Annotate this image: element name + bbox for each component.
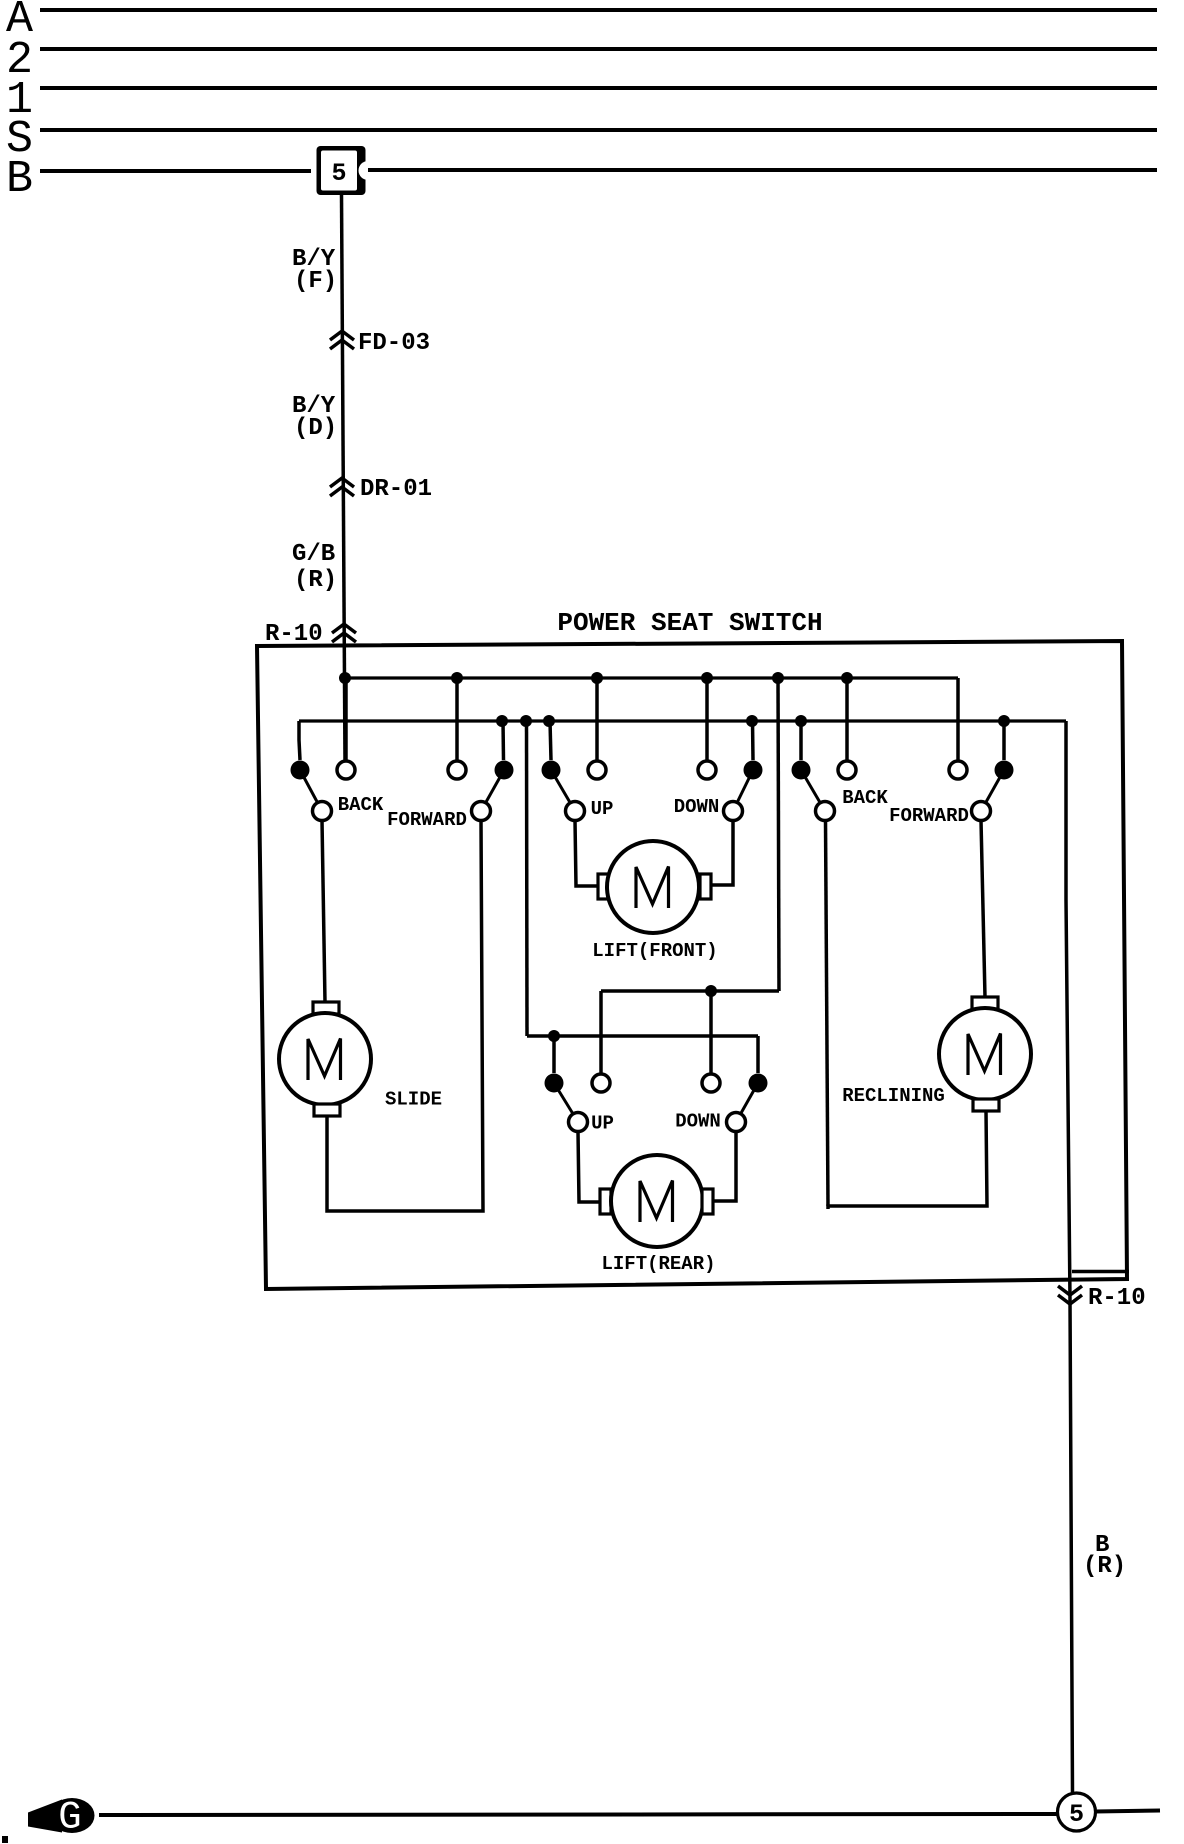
wire supply bus to slide back NO contact: [344, 678, 348, 761]
wire liftfront down pivot to motor right: [711, 821, 733, 886]
junction ground bus x1004: [998, 715, 1010, 727]
switch contact liftrear-up common (filled): [545, 1074, 564, 1093]
wire from connector 5 down to power seat switch (node feed): [342, 195, 346, 761]
switch contact slide-back NO (open): [337, 761, 355, 779]
wire ground bus right end down to ground (node B(R)): [1066, 721, 1073, 1793]
motor LIFT REAR left terminal tab: [600, 1189, 611, 1214]
svg-text:(R): (R): [1083, 1553, 1126, 1580]
switch lever reclining FORWARD: [981, 770, 1004, 811]
wire ground bus to reclining back contact: [799, 721, 803, 760]
switch lever reclining BACK: [801, 770, 825, 811]
switch contact slide-forward NO (open): [448, 761, 466, 779]
connector 5 (in-line connector on rail B): [317, 146, 366, 195]
junction lift-rear ground rail: [548, 1030, 560, 1042]
wire reclining forward pivot to motor top: [981, 821, 985, 998]
junction supply bus x457: [451, 672, 463, 684]
wire liftfront up pivot to motor left: [575, 821, 598, 887]
wire ground bus to lift-front down contact: [751, 721, 755, 760]
switch contact slide-forward common (filled): [495, 761, 514, 780]
svg-text:DOWN: DOWN: [674, 796, 720, 818]
svg-text:R-10: R-10: [1088, 1285, 1146, 1312]
wire supply bus to reclining back NO contact: [845, 678, 849, 761]
wire supply bus to lift-front down NO contact: [705, 678, 709, 761]
switch pivot slide BACK: [313, 802, 332, 821]
connector FD-03 (in-line connector symbol): [330, 331, 354, 340]
motor SLIDE bottom terminal tab: [314, 1104, 340, 1116]
svg-text:(R): (R): [294, 567, 337, 594]
switch lever liftrear UP: [554, 1083, 578, 1122]
switch lever liftfront DOWN: [733, 770, 753, 811]
motor LIFT FRONT left terminal tab: [598, 874, 609, 899]
switch pivot liftfront UP: [566, 802, 585, 821]
wire ground bus down to lift-rear ground rail: [525, 721, 529, 1036]
page mark dot bottom-left: [2, 1836, 8, 1843]
svg-text:FD-03: FD-03: [358, 330, 430, 357]
wire supply rail to liftrear-down NO contact: [709, 991, 713, 1074]
wire supply rail to liftrear-up NO contact: [599, 991, 603, 1074]
switch pivot liftrear UP: [569, 1113, 588, 1132]
wire liftrear down pivot to motor right: [713, 1132, 736, 1202]
svg-text:LIFT(FRONT): LIFT(FRONT): [592, 940, 717, 962]
wire ground rail (left segment): [99, 1814, 1057, 1815]
junction ground bus x752: [746, 715, 758, 727]
svg-text:FORWARD: FORWARD: [387, 809, 467, 831]
svg-text:BACK: BACK: [842, 787, 888, 809]
svg-text:G: G: [58, 1796, 81, 1840]
wire supply bus (node B+): [345, 676, 958, 679]
wire/rail B (right segment from connector): [367, 168, 1157, 172]
switch lever liftrear DOWN: [736, 1083, 758, 1122]
svg-text:FORWARD: FORWARD: [889, 805, 969, 827]
wire ground bus to reclining forward contact: [1002, 721, 1006, 760]
junction on supply bus at feed: [339, 672, 351, 684]
motor M LIFT REAR: [611, 1155, 703, 1247]
svg-text:UP: UP: [591, 1113, 614, 1135]
wire reclining back pivot down: [826, 821, 829, 1207]
switch lever slide BACK: [300, 770, 322, 811]
motor M RECLINING: [939, 1008, 1031, 1100]
switch contact reclining-forward NO (open): [949, 761, 967, 779]
svg-text:(F): (F): [294, 268, 337, 295]
wire ground rail to liftrear-up contact: [552, 1036, 556, 1073]
switch contact liftfront-down common (filled): [744, 761, 763, 780]
wire supply bus right end down to reclining forward NO contact: [956, 678, 960, 761]
wire ground bus left end down to slide back contact: [299, 721, 300, 760]
motor RECLINING top terminal tab: [972, 997, 998, 1009]
wire lift-rear ground rail: [527, 1034, 758, 1038]
connector R-10 (in-line connector symbol, top): [332, 624, 356, 633]
junction supply bus x597: [591, 672, 603, 684]
svg-text:LIFT(REAR): LIFT(REAR): [601, 1253, 715, 1275]
box bottom edge doubled stroke near right corner: [1072, 1270, 1129, 1274]
switch lever liftfront UP: [551, 770, 575, 811]
switch contact liftfront-down NO (open): [698, 761, 716, 779]
wire slide motor bottom to slide forward pivot: [327, 821, 483, 1212]
motor M SLIDE: [279, 1013, 371, 1105]
svg-text:SLIDE: SLIDE: [385, 1089, 442, 1111]
wire supply bus down to lift-rear supply rail: [778, 678, 779, 991]
svg-text:5: 5: [1069, 1800, 1084, 1829]
junction ground bus x502: [496, 715, 508, 727]
wire lift-rear supply rail: [601, 989, 779, 993]
wire liftrear up pivot to motor left: [578, 1132, 600, 1203]
switch contact liftrear-down NO (open): [702, 1074, 720, 1092]
junction ground bus x526: [520, 715, 532, 727]
switch pivot slide FORWARD: [472, 802, 491, 821]
wire slide back pivot to slide motor top: [322, 821, 325, 1003]
wire ground bus to lift-front up contact: [550, 721, 551, 760]
switch contact slide-back common (filled): [291, 761, 310, 780]
svg-text:G/B: G/B: [292, 541, 335, 568]
power seat switch enclosure box: [257, 641, 1127, 1289]
wire ground bus (node GND): [299, 719, 1066, 722]
svg-text:DR-01: DR-01: [360, 476, 432, 503]
svg-text:DOWN: DOWN: [675, 1111, 721, 1133]
connector R-10 (in-line connector symbol, bottom): [1058, 1286, 1082, 1295]
wire ground rail (right segment): [1095, 1811, 1160, 1812]
switch contact reclining-back NO (open): [838, 761, 856, 779]
motor LIFT REAR right terminal tab: [702, 1189, 713, 1214]
svg-text:RECLINING: RECLINING: [842, 1085, 945, 1107]
switch contact liftfront-up common (filled): [542, 761, 561, 780]
switch contact liftfront-up NO (open): [588, 761, 606, 779]
switch pivot reclining FORWARD: [972, 802, 991, 821]
svg-text:BACK: BACK: [338, 794, 384, 816]
wire ground bus to slide forward contact: [501, 721, 505, 760]
motor LIFT FRONT right terminal tab: [700, 874, 711, 899]
wire ground rail down to liftrear-down contact: [756, 1036, 760, 1073]
svg-text:B: B: [6, 154, 33, 205]
svg-text:UP: UP: [591, 798, 614, 820]
svg-text:5: 5: [331, 159, 346, 188]
motor M LIFT FRONT: [607, 841, 699, 933]
switch pivot reclining BACK: [816, 802, 835, 821]
motor RECLINING bottom terminal tab: [973, 1099, 999, 1111]
junction lift-rear supply rail: [705, 985, 717, 997]
switch contact reclining-back common (filled): [792, 761, 811, 780]
connector 5 (circle, bottom): [1058, 1793, 1096, 1831]
junction ground bus x549: [543, 715, 555, 727]
wire supply bus to slide forward NO contact: [455, 678, 459, 761]
svg-text:POWER SEAT SWITCH: POWER SEAT SWITCH: [557, 608, 822, 638]
switch pivot liftrear DOWN: [727, 1113, 746, 1132]
junction supply bus x707: [701, 672, 713, 684]
junction supply bus x847: [841, 672, 853, 684]
junction supply bus x778: [772, 672, 784, 684]
junction ground bus x801: [795, 715, 807, 727]
motor SLIDE top terminal tab: [313, 1002, 339, 1014]
switch lever slide FORWARD: [481, 770, 504, 811]
ground symbol G: [28, 1800, 62, 1833]
svg-text:(D): (D): [294, 415, 337, 442]
wire supply bus to lift-front up NO contact: [595, 678, 599, 761]
connector DR-01 (in-line connector symbol): [330, 478, 354, 487]
switch pivot liftfront DOWN: [724, 802, 743, 821]
wire reclining motor bottom to reclining back pivot: [828, 1111, 987, 1209]
switch contact liftrear-up NO (open): [592, 1074, 610, 1092]
switch contact reclining-forward common (filled): [995, 761, 1014, 780]
switch contact liftrear-down common (filled): [749, 1074, 768, 1093]
